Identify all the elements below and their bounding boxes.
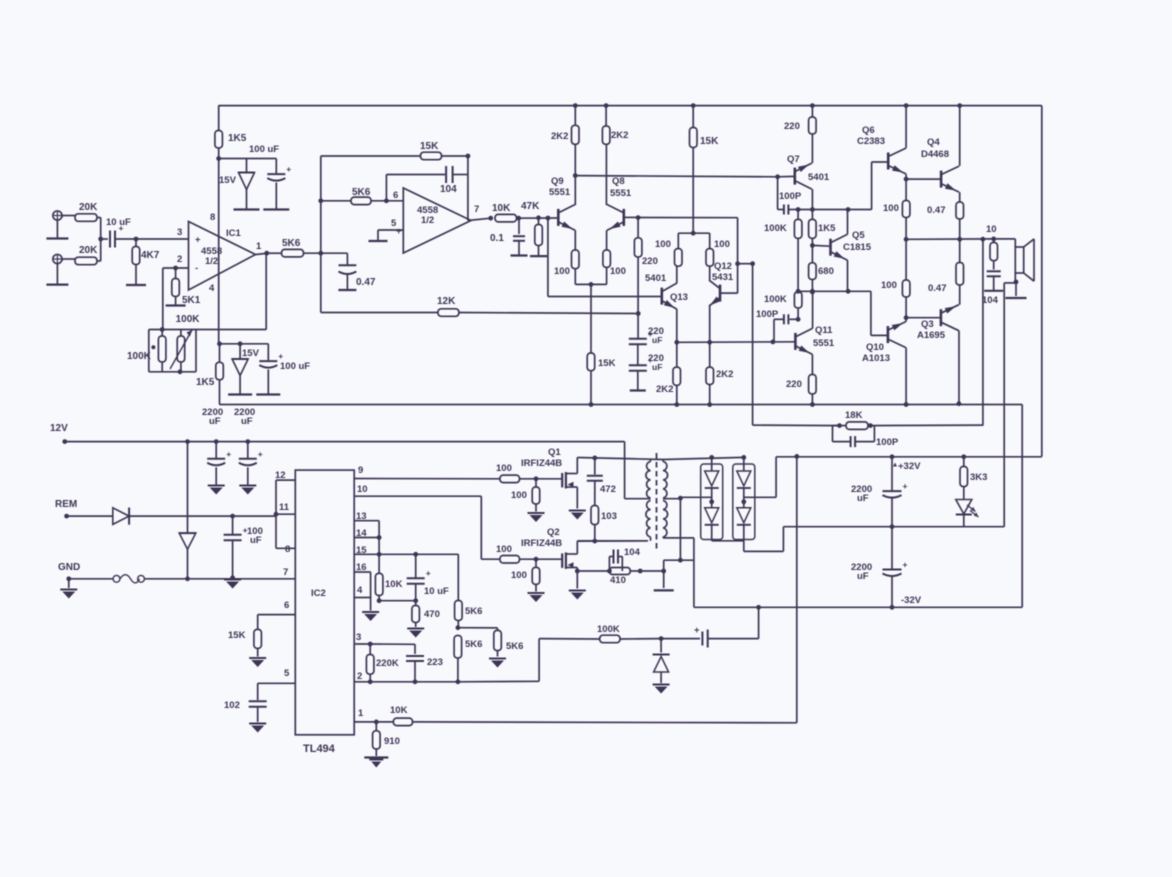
snubber 104-410 xyxy=(607,547,664,586)
svg-text:100P: 100P xyxy=(779,191,802,202)
transistor Q3 A1695 xyxy=(917,305,959,341)
resistor 1K5 bias xyxy=(809,210,837,246)
wire fb 18K line xyxy=(753,423,842,428)
svg-text:100K: 100K xyxy=(597,624,620,635)
svg-text:IRFIZ44B: IRFIZ44B xyxy=(521,458,562,469)
wire q7 emit xyxy=(811,134,813,163)
resistor 15K fb xyxy=(420,141,468,160)
node q8 base xyxy=(624,215,641,220)
svg-text:220: 220 xyxy=(784,121,800,132)
svg-text:Q10: Q10 xyxy=(866,342,884,353)
wire pin2 down xyxy=(162,268,164,330)
svg-text:100: 100 xyxy=(714,239,730,250)
svg-text:5551: 5551 xyxy=(549,187,571,198)
wire +32 rail xyxy=(776,454,1042,459)
svg-text:8: 8 xyxy=(285,544,290,555)
svg-text:10K: 10K xyxy=(390,705,408,716)
svg-text:uF: uF xyxy=(857,571,869,582)
zener smps xyxy=(653,639,670,694)
pin 9 stub xyxy=(354,465,500,479)
wire q12 emit xyxy=(709,306,711,342)
resistor 680 xyxy=(809,245,834,291)
svg-text:680: 680 xyxy=(818,266,834,277)
resistor 5K6 gnd xyxy=(489,628,523,668)
svg-text:uF: uF xyxy=(209,416,221,427)
svg-text:2K2: 2K2 xyxy=(611,130,628,141)
svg-text:Q12: Q12 xyxy=(714,261,732,272)
svg-text:uF: uF xyxy=(250,535,262,546)
pin 8 stub xyxy=(276,544,295,555)
resistor 15K tail xyxy=(587,353,615,405)
svg-text:5551: 5551 xyxy=(610,188,632,199)
node IC1b in-node xyxy=(318,198,323,203)
capacitor 220uF b xyxy=(629,353,664,391)
op-amp IC1b 4558 xyxy=(391,188,479,253)
resistor 47K xyxy=(521,201,547,256)
node REM xyxy=(64,514,113,519)
svg-text:10K: 10K xyxy=(492,203,511,214)
pin 16 stub xyxy=(354,562,370,611)
svg-text:5401: 5401 xyxy=(808,172,830,183)
pin 3 stub xyxy=(354,632,370,644)
svg-text:3: 3 xyxy=(177,227,182,238)
wire rail to -32 xyxy=(1021,405,1023,608)
transistor Q10 A1013 xyxy=(862,322,906,364)
wire fb to +32 xyxy=(794,454,799,723)
transistor Q9 5551 xyxy=(549,176,575,230)
svg-text:15K: 15K xyxy=(598,358,616,369)
svg-text:0.47: 0.47 xyxy=(927,205,946,216)
wire q10q3 wire xyxy=(906,317,941,319)
rectifier D1 dual xyxy=(701,457,723,540)
svg-text:5431: 5431 xyxy=(712,272,734,283)
svg-text:5K6: 5K6 xyxy=(465,639,482,650)
resistor 103 snub xyxy=(591,506,617,542)
wire D1 mid xyxy=(678,496,712,501)
svg-text:TL494: TL494 xyxy=(303,743,336,755)
svg-text:5551: 5551 xyxy=(813,338,835,349)
wire pin2 net right xyxy=(458,639,600,682)
resistor 100 g1b xyxy=(511,479,545,522)
wire q5 coll xyxy=(847,210,849,235)
svg-text:6: 6 xyxy=(284,600,289,611)
svg-text:uF: uF xyxy=(241,416,253,427)
svg-text:2K2: 2K2 xyxy=(716,369,733,380)
node Q2 source row xyxy=(575,569,610,574)
svg-text:220K: 220K xyxy=(376,658,399,669)
pin 4 stub xyxy=(354,585,370,598)
resistor 0.47 bot xyxy=(928,239,964,304)
svg-text:10: 10 xyxy=(986,224,997,235)
transistor Q8 5551 xyxy=(607,176,632,230)
resistor 100 g1 xyxy=(496,463,562,483)
node tail rail xyxy=(589,402,594,407)
resistor 100 bot xyxy=(881,239,910,317)
node snub xyxy=(592,539,597,544)
node fb top xyxy=(160,327,165,332)
node Q9 base node xyxy=(546,216,551,221)
node pin1 xyxy=(374,720,379,725)
wire pin6 to 104 xyxy=(386,175,445,201)
svg-text:100: 100 xyxy=(610,266,626,277)
svg-text:9: 9 xyxy=(358,465,363,476)
wire bottom -rail xyxy=(220,404,1023,406)
svg-text:Q8: Q8 xyxy=(612,176,625,187)
wire secondary ct xyxy=(663,499,683,563)
wire primary ct xyxy=(625,442,651,499)
svg-text:100: 100 xyxy=(554,266,570,277)
label GND xyxy=(58,562,80,573)
svg-text:15V: 15V xyxy=(219,175,237,186)
svg-text:100K: 100K xyxy=(764,223,787,234)
wire 15K fb xyxy=(321,156,421,201)
svg-text:10K: 10K xyxy=(385,579,403,590)
resistor 100 q13c xyxy=(655,233,682,266)
capacitor 2200uF a xyxy=(202,407,231,495)
label 12V xyxy=(50,423,68,434)
svg-text:-32V: -32V xyxy=(901,595,922,606)
node 12V xyxy=(62,439,624,444)
wire q13 coll xyxy=(676,266,678,283)
rectifier D2 dual xyxy=(733,457,755,540)
wire q10 emit xyxy=(905,318,907,322)
svg-text:7: 7 xyxy=(474,204,479,215)
wire q13 emit xyxy=(676,309,678,342)
capacitor 2200uF neg xyxy=(851,527,908,610)
resistor 10K pin14 xyxy=(375,573,402,600)
transformer core xyxy=(656,453,658,549)
wire q4 emit xyxy=(959,192,961,202)
label REM xyxy=(55,499,77,510)
svg-text:Q11: Q11 xyxy=(815,325,833,336)
wire D2 mid xyxy=(744,457,776,498)
resistor 220K xyxy=(366,644,398,682)
wire q8 emitter xyxy=(606,230,608,250)
svg-text:20K: 20K xyxy=(79,245,98,256)
svg-text:104: 104 xyxy=(440,184,457,195)
svg-text:+: + xyxy=(195,235,201,246)
resistor 2K2 q9 xyxy=(551,106,579,145)
transistor Q5 C1815 xyxy=(831,230,872,260)
svg-text:5401: 5401 xyxy=(645,273,667,284)
wire q4 coll xyxy=(959,106,961,166)
node IC1a V- node xyxy=(217,341,268,346)
wire q7 coll xyxy=(811,189,813,209)
svg-text:8: 8 xyxy=(210,212,215,223)
ground arrow Q2 source xyxy=(569,591,586,600)
wire Q1 drain xyxy=(577,456,663,461)
wire 20K join xyxy=(97,218,101,262)
wire to Q10 base xyxy=(871,291,888,335)
wire IC1b out xyxy=(468,218,491,220)
svg-text:GND: GND xyxy=(58,562,80,573)
pin 6 stub xyxy=(258,600,296,629)
resistor 5K6 low xyxy=(454,636,482,681)
svg-text:1/2: 1/2 xyxy=(421,215,434,226)
ground bar 100uF top xyxy=(263,208,289,210)
node 100P b xyxy=(796,317,801,322)
resistor 100K b xyxy=(764,292,802,320)
svg-text:IC1: IC1 xyxy=(226,228,242,239)
ground bar 100uF bottom xyxy=(256,393,280,395)
wire feedback horiz xyxy=(149,329,266,331)
label 100K left xyxy=(127,351,152,362)
svg-text:220: 220 xyxy=(642,256,658,267)
svg-text:+: + xyxy=(119,223,124,233)
capacitor 104 zobel xyxy=(982,261,1003,306)
svg-text:12V: 12V xyxy=(50,423,68,434)
resistor 5K6 p15 xyxy=(455,554,483,627)
ground bar zener top xyxy=(234,208,260,210)
svg-text:103: 103 xyxy=(601,511,617,522)
svg-text:D4468: D4468 xyxy=(921,149,949,160)
svg-text:A1695: A1695 xyxy=(917,330,946,341)
wire q11 emit xyxy=(811,354,813,374)
wire +32 to top rail xyxy=(1041,106,1043,457)
svg-text:Q5: Q5 xyxy=(852,230,865,241)
resistor 3K3 xyxy=(960,457,987,487)
svg-text:+: + xyxy=(903,560,908,570)
IC TL494 box xyxy=(295,470,354,755)
svg-text:IRFIZ44B: IRFIZ44B xyxy=(521,538,562,549)
ground arrow pins16-4 xyxy=(362,612,379,621)
node 15V rail xyxy=(216,156,276,161)
svg-text:+32V: +32V xyxy=(898,461,921,472)
svg-text:100P: 100P xyxy=(756,309,779,320)
svg-text:910: 910 xyxy=(384,736,400,747)
resistor 100 q9e xyxy=(554,250,579,284)
node pin3 xyxy=(368,642,415,654)
wire nodeA down xyxy=(548,218,662,297)
wire q5 emit xyxy=(847,260,849,291)
wire fb down xyxy=(982,239,984,425)
capacitor 10uF xyxy=(407,554,449,603)
zener 12V rail xyxy=(179,439,196,579)
wire bias bottom row xyxy=(796,289,871,294)
wire secondary bottom xyxy=(663,537,694,607)
resistor 20K ch2 xyxy=(62,245,98,265)
capacitor 104 fb xyxy=(440,166,468,195)
svg-text:104: 104 xyxy=(982,295,999,306)
capacitor 10uF input xyxy=(106,217,136,248)
svg-text:2: 2 xyxy=(177,254,182,265)
node input node xyxy=(134,237,139,242)
node IC1b out xyxy=(488,216,493,221)
resistor 100K smps xyxy=(597,624,661,643)
capacitor 100uF rem xyxy=(224,514,263,576)
pin 7 stub xyxy=(283,567,288,578)
node pin2 xyxy=(173,266,178,271)
wire 5K6 node up xyxy=(320,201,322,253)
transistor Q11 5551 xyxy=(795,325,834,354)
svg-text:+: + xyxy=(278,351,283,361)
wire q6 coll xyxy=(905,106,907,148)
svg-text:472: 472 xyxy=(600,484,616,495)
resistor 10K pin1 xyxy=(390,705,797,726)
svg-text:1/2: 1/2 xyxy=(205,256,218,267)
speaker xyxy=(994,239,1034,282)
resistor 100 q12c xyxy=(706,233,730,266)
pin 15 stub xyxy=(354,545,381,557)
capacitor 0.1 xyxy=(490,218,528,255)
transformer secondary xyxy=(663,462,668,538)
resistor 15K pin6 xyxy=(228,629,266,667)
wire to IC1a +in xyxy=(136,238,189,240)
wire -32 rail xyxy=(694,595,1022,610)
node speaker neg xyxy=(1006,280,1027,299)
svg-text:5K6: 5K6 xyxy=(506,641,523,652)
svg-text:100K: 100K xyxy=(176,314,201,325)
label +32V xyxy=(893,461,921,472)
svg-text:IC2: IC2 xyxy=(311,588,326,599)
node 10K bottom xyxy=(377,598,416,603)
capacitor 223 xyxy=(406,656,443,682)
svg-text:5K6: 5K6 xyxy=(465,606,482,617)
resistor 18K xyxy=(840,410,869,429)
ground bar 5K1 xyxy=(166,304,186,306)
wire vas bar xyxy=(678,231,709,236)
pin 14 stub xyxy=(354,528,381,540)
node 5K6 mid xyxy=(456,625,498,630)
wire pin15 row xyxy=(379,552,458,557)
capacitor 2200uF b xyxy=(234,407,263,495)
transistor Q13 5401 xyxy=(645,273,688,309)
node 12K-220 xyxy=(636,311,641,316)
resistor 4K7 xyxy=(132,239,160,285)
node 20K junction xyxy=(98,237,108,242)
wire diff tail xyxy=(575,282,606,353)
svg-text:100: 100 xyxy=(496,463,512,474)
node IC1a out xyxy=(256,251,282,256)
svg-text:REM: REM xyxy=(55,499,77,510)
svg-text:uF: uF xyxy=(652,362,662,372)
svg-text:uF: uF xyxy=(857,493,869,504)
svg-text:12K: 12K xyxy=(437,296,456,307)
resistor 220 q11 xyxy=(786,375,816,407)
svg-text:4: 4 xyxy=(209,283,215,294)
wire rect neg xyxy=(712,527,1005,552)
pin 12 stub xyxy=(275,470,295,548)
wire 12K line xyxy=(321,253,438,312)
svg-text:100: 100 xyxy=(511,490,527,501)
svg-text:+: + xyxy=(226,449,231,459)
svg-text:Q6: Q6 xyxy=(862,125,875,136)
svg-text:+: + xyxy=(396,226,402,237)
resistor 100 top xyxy=(883,201,910,240)
svg-text:0.47: 0.47 xyxy=(356,277,376,288)
node q12 coll wire xyxy=(735,261,755,266)
svg-text:223: 223 xyxy=(427,657,443,668)
svg-text:1K5: 1K5 xyxy=(818,223,836,234)
svg-text:Q3: Q3 xyxy=(921,319,934,330)
capacitor 220uF a xyxy=(629,326,664,365)
trimmer 100K xyxy=(170,330,192,369)
svg-text:15K: 15K xyxy=(420,141,439,152)
svg-text:100: 100 xyxy=(511,570,527,581)
node top rail junctions xyxy=(573,103,962,108)
svg-text:+: + xyxy=(903,481,908,491)
wire primary bottom xyxy=(577,537,650,541)
wire vas emitter rail xyxy=(674,340,795,345)
node 47K branch xyxy=(536,215,541,220)
svg-text:470: 470 xyxy=(424,609,440,620)
node q9 coll xyxy=(573,173,578,178)
svg-text:100: 100 xyxy=(881,280,897,291)
svg-text:0.1: 0.1 xyxy=(490,233,504,244)
wire q12c down fb xyxy=(752,264,754,425)
wire q11 coll xyxy=(810,290,815,329)
wire spk neg fb xyxy=(1004,283,1016,527)
capacitor 100uF bottom xyxy=(259,344,310,395)
wire to Q6 base xyxy=(872,162,889,210)
wire Q2 drain xyxy=(577,540,648,542)
svg-text:100: 100 xyxy=(655,239,671,250)
resistor 100K a xyxy=(764,210,802,292)
svg-text:+: + xyxy=(694,625,700,636)
svg-text:220: 220 xyxy=(786,379,802,390)
wire bias top row xyxy=(796,207,872,212)
svg-text:+: + xyxy=(426,568,431,578)
svg-text:Q4: Q4 xyxy=(927,137,940,148)
transformer primary xyxy=(646,460,663,538)
capacitor 100P q7 xyxy=(778,177,802,215)
wire IC1a -in xyxy=(163,267,189,269)
resistor 1K5 top xyxy=(215,131,247,149)
node g1 xyxy=(534,476,539,481)
mosfet Q2 IRFZ44 xyxy=(521,527,577,589)
resistor 2K2 q8 xyxy=(602,106,628,145)
wire fb loop xyxy=(149,330,196,372)
svg-text:100 uF: 100 uF xyxy=(249,144,279,155)
svg-text:100P: 100P xyxy=(876,437,899,448)
node 0.1 branch xyxy=(516,216,521,221)
LED xyxy=(956,487,979,527)
wire top +rail xyxy=(218,105,1041,107)
svg-text:20K: 20K xyxy=(79,202,98,213)
wire output row xyxy=(904,237,996,242)
node g2 xyxy=(534,557,539,562)
node GND xyxy=(60,576,77,598)
node 18K right xyxy=(868,423,983,428)
resistor 100 q8e xyxy=(603,250,626,284)
pin 1 stub xyxy=(354,708,393,722)
svg-text:7: 7 xyxy=(283,567,288,578)
input jack J1 xyxy=(46,211,68,239)
transistor Q4 D4468 xyxy=(921,137,959,192)
wire q8 collector xyxy=(605,144,607,205)
svg-text:2K2: 2K2 xyxy=(551,131,568,142)
svg-text:4K7: 4K7 xyxy=(141,250,160,261)
wire q9 emitter xyxy=(574,230,576,250)
pin 11 stub xyxy=(274,502,296,517)
svg-text:3: 3 xyxy=(356,632,361,643)
svg-text:2K2: 2K2 xyxy=(656,384,673,395)
fuse GND xyxy=(69,575,295,583)
svg-text:2: 2 xyxy=(357,671,362,682)
capacitor 0.47 xyxy=(321,253,376,290)
zener D 15V top xyxy=(219,159,255,210)
svg-text:uF: uF xyxy=(652,335,662,345)
resistor 2K2 q13e xyxy=(656,342,681,407)
resistor 5K6 b xyxy=(351,187,403,205)
svg-text:Q13: Q13 xyxy=(670,292,688,303)
node 5K6-0.47 xyxy=(318,251,323,256)
svg-text:6: 6 xyxy=(393,190,398,201)
svg-text:5K6: 5K6 xyxy=(282,238,301,249)
wire q12 coll xyxy=(709,266,711,280)
transistor Q12 5431 xyxy=(709,261,738,306)
wire secondary top xyxy=(663,455,746,460)
